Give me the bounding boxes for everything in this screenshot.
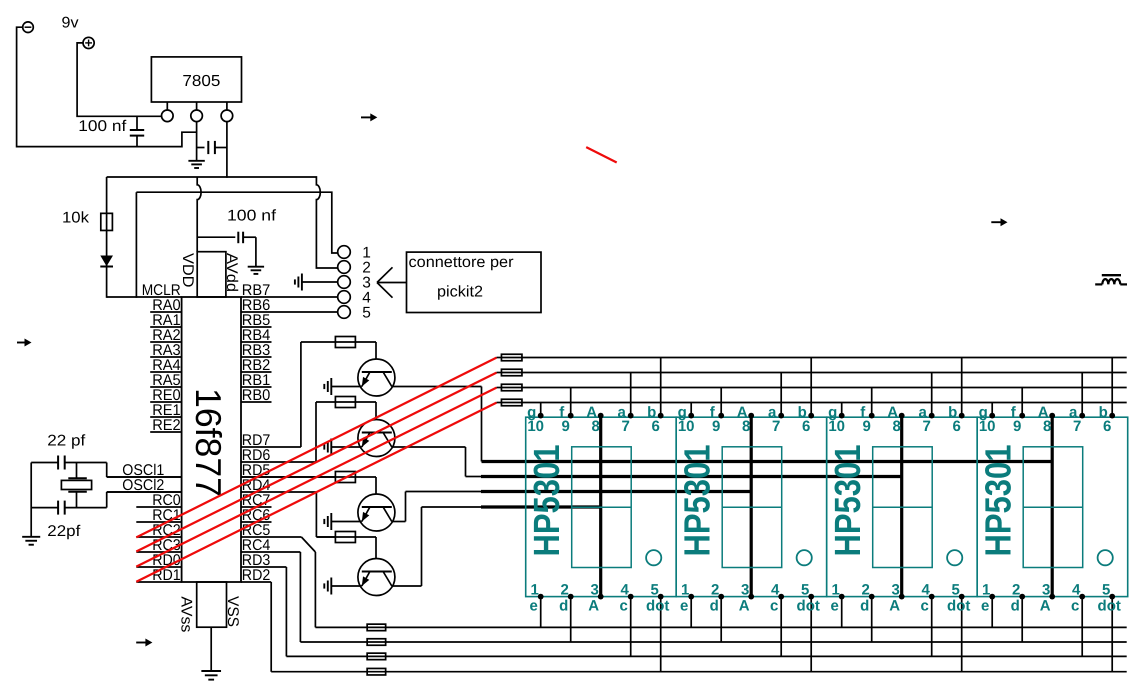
svg-text:8: 8 <box>893 418 901 435</box>
pin RA2 <box>150 341 181 343</box>
display1 bottom pin dot <box>538 594 544 600</box>
ground 7805 <box>188 160 204 162</box>
display1 bottom pin dot <box>568 594 574 600</box>
resistor R2 <box>335 397 355 408</box>
resistor 10k <box>101 213 113 230</box>
svg-text:c: c <box>770 598 778 615</box>
display DS1 digit outline <box>572 447 632 568</box>
wire red segment <box>586 147 617 162</box>
svg-text:9: 9 <box>1013 418 1021 435</box>
arrow marker top <box>361 116 371 118</box>
wire base resistor R4 row <box>316 536 376 538</box>
display3 top pin dot g <box>839 413 845 419</box>
svg-text:VDD: VDD <box>179 253 196 288</box>
svg-text:10: 10 <box>979 418 996 435</box>
resistor R1 <box>335 337 355 348</box>
wire segment bus b <box>522 357 1127 359</box>
wire RD7 to R1 <box>300 342 302 447</box>
wire display1 pin dot to bus <box>660 597 662 672</box>
connector box connettore per pickit2 <box>407 252 542 312</box>
svg-text:8: 8 <box>742 418 750 435</box>
wire display4 pin a to bus <box>1081 373 1083 416</box>
svg-text:4: 4 <box>771 582 780 599</box>
wire display3 pin dot to bus <box>961 597 963 672</box>
display3 top pin dot b <box>959 413 965 419</box>
pickit connector pin 1 circle <box>338 246 351 259</box>
wire to OSC1 <box>106 463 108 478</box>
svg-text:AVdd: AVdd <box>223 253 240 292</box>
display4 bottom pin dot <box>989 594 995 600</box>
wire R4 to Q4 base <box>375 537 377 572</box>
display3 bottom pin dot <box>869 594 875 600</box>
display1 top pin dot f <box>568 413 574 419</box>
svg-text:A: A <box>588 598 599 615</box>
diode D1 <box>100 256 113 267</box>
svg-text:dot: dot <box>797 598 820 615</box>
wire battery minus to ground rail <box>17 27 197 146</box>
svg-text:10: 10 <box>678 418 695 435</box>
svg-text:3: 3 <box>892 582 900 599</box>
svg-text:10k: 10k <box>62 210 89 227</box>
display3 bottom pin dot <box>839 594 845 600</box>
wire RD2 to dot-bus <box>270 582 272 672</box>
ground pickit pin3 <box>301 274 303 291</box>
wire red jumper 3 <box>136 388 496 567</box>
display3 bottom pin dot <box>959 594 965 600</box>
resistor segment R8 <box>497 402 502 404</box>
svg-text:c: c <box>1071 598 1079 615</box>
display4 bottom pin dot <box>1049 594 1055 600</box>
wire RC5 jog to e-bus <box>301 537 315 552</box>
wire Q3 collector to display2 A <box>392 521 406 523</box>
svg-text:pickit2: pickit2 <box>437 284 483 301</box>
svg-text:3: 3 <box>741 582 749 599</box>
svg-text:7: 7 <box>923 418 931 435</box>
display4 bottom pin dot <box>1079 594 1085 600</box>
svg-text:1: 1 <box>832 582 840 599</box>
wire display3 pin c to bus <box>931 597 933 657</box>
svg-text:connettore per: connettore per <box>409 254 514 271</box>
arrow marker right <box>991 221 1001 223</box>
capacitor 100 nf AVdd <box>197 236 235 238</box>
battery positive terminal <box>83 37 94 48</box>
svg-text:5: 5 <box>651 582 659 599</box>
wire display3 pin a to bus <box>931 373 933 416</box>
wire pullup vertical <box>106 177 108 298</box>
display3 top pin dot f <box>869 413 875 419</box>
display2 bottom pin dot <box>718 594 724 600</box>
svg-text:d: d <box>1011 598 1020 615</box>
pin RA0 <box>150 311 181 313</box>
pickit connector pin 2 circle <box>338 261 351 274</box>
wire VDD rail <box>107 177 338 268</box>
wire display2 pin a to bus <box>780 373 782 416</box>
pin RD3 <box>241 566 286 568</box>
svg-text:RD2: RD2 <box>242 567 270 584</box>
display2 bottom pin dot <box>808 594 814 600</box>
resistor R3 <box>335 472 355 483</box>
svg-text:1: 1 <box>681 582 689 599</box>
pin RC4 <box>241 551 300 553</box>
svg-text:100 nf: 100 nf <box>227 208 277 225</box>
resistor segment R7 <box>497 387 502 389</box>
transistor Q1 <box>358 359 395 396</box>
wire display1 pin b to bus <box>660 358 662 416</box>
wire display4 pin dot to bus <box>1111 597 1113 672</box>
display2 bottom pin dot <box>778 594 784 600</box>
svg-text:HP5301: HP5301 <box>978 445 1019 557</box>
wire display1 pin c to bus <box>630 597 632 657</box>
wire display2 pin g to bus <box>690 403 692 416</box>
open arrow to pickit box <box>377 282 407 284</box>
display4 top pin dot g <box>989 413 995 419</box>
wire display3 pin d to bus <box>871 597 873 642</box>
display1 top pin dot A <box>598 413 604 419</box>
svg-text:HP5301: HP5301 <box>827 445 868 557</box>
svg-text:7: 7 <box>772 418 780 435</box>
display2 bottom pin dot <box>748 594 754 600</box>
wire display3 pin f to bus <box>871 388 873 416</box>
wire display3 pin g to bus <box>841 403 843 416</box>
svg-text:c: c <box>921 598 929 615</box>
pin RB7 <box>241 296 338 298</box>
wire RD6 to R2 <box>315 402 317 462</box>
wire segment bus f <box>522 387 1127 389</box>
pickit connector pin 3 circle <box>338 276 351 289</box>
svg-text:dot: dot <box>947 598 970 615</box>
display1 bottom pin dot <box>598 594 604 600</box>
transistor Q2 <box>358 420 395 457</box>
svg-text:7: 7 <box>622 418 630 435</box>
svg-text:22 pf: 22 pf <box>47 433 86 450</box>
svg-text:c: c <box>620 598 628 615</box>
svg-text:d: d <box>559 598 568 615</box>
regulator U2 7805 <box>151 57 241 102</box>
svg-text:9: 9 <box>863 418 871 435</box>
display DS3 digit outline <box>873 447 933 568</box>
ground Q2 emitter <box>330 439 332 456</box>
arrow marker left <box>17 342 26 344</box>
wire display1 pin g to bus <box>540 403 542 416</box>
svg-text:RE2: RE2 <box>152 417 181 434</box>
svg-text:7805: 7805 <box>182 73 220 90</box>
resistor bottom bus dot <box>367 668 386 675</box>
wire Q1 collector to display4 A <box>392 386 482 388</box>
svg-text:2: 2 <box>862 582 870 599</box>
display2 top pin dot A <box>748 413 754 419</box>
ground Q3 emitter <box>330 513 332 530</box>
pin RB0 <box>241 401 272 403</box>
svg-text:4: 4 <box>621 582 630 599</box>
pickit connector pin 4 circle <box>338 291 351 304</box>
display1 top pin dot b <box>658 413 664 419</box>
wire display1 A column <box>599 416 602 597</box>
wire red jumper 1 <box>136 358 496 538</box>
display4 top pin dot a <box>1079 413 1085 419</box>
svg-text:6: 6 <box>652 418 660 435</box>
wire display3 pin b to bus <box>961 358 963 416</box>
resistor segment R5 <box>497 357 502 359</box>
display4 bottom pin dot <box>1109 594 1115 600</box>
display1 top pin dot g <box>538 413 544 419</box>
display3 bottom pin dot <box>899 594 905 600</box>
pin OSCl2 <box>107 491 182 493</box>
svg-text:9v: 9v <box>62 15 79 32</box>
wire battery plus to 7805 input <box>77 43 161 116</box>
ground AVss <box>201 670 221 672</box>
wire display2 pin f to bus <box>720 388 722 416</box>
wire to OSC2 <box>106 492 108 508</box>
crystal X1 <box>76 463 78 479</box>
7805 pin 1 input <box>166 102 168 110</box>
ground Q1 emitter <box>330 378 332 395</box>
display DS1 HP5301 body <box>526 417 677 596</box>
pin RB6 <box>241 311 338 313</box>
wire display2 A column <box>750 416 753 597</box>
pin RD6 <box>241 461 316 463</box>
svg-text:1: 1 <box>982 582 990 599</box>
pin RD7 <box>241 446 301 448</box>
pin RD0 <box>136 566 181 568</box>
7805 pin 2 gnd <box>196 102 198 110</box>
resistor R4 <box>335 532 355 543</box>
svg-text:2: 2 <box>1012 582 1020 599</box>
svg-text:1: 1 <box>531 582 539 599</box>
svg-text:5: 5 <box>801 582 809 599</box>
capacitor output to gnd <box>197 147 205 149</box>
display DS2 digit outline <box>722 447 782 568</box>
wire bottom bus e <box>315 626 1126 628</box>
wire segment bus a <box>522 372 1127 374</box>
pin RD5 <box>241 476 335 478</box>
svg-text:4: 4 <box>1072 582 1081 599</box>
pin RC0 <box>136 506 181 508</box>
pin RD4 <box>241 491 316 493</box>
svg-text:d: d <box>860 598 869 615</box>
svg-text:A: A <box>1040 598 1051 615</box>
wire R2 to Q2 base <box>375 402 377 433</box>
wire display1 pin a to bus <box>630 373 632 416</box>
wire display4 pin b to bus <box>1111 358 1113 416</box>
pin RE1 <box>150 416 181 418</box>
svg-text:e: e <box>831 598 839 615</box>
wire display3 pin e to bus <box>841 597 843 628</box>
svg-text:3: 3 <box>591 582 599 599</box>
svg-text:4: 4 <box>922 582 931 599</box>
chip VDD/AVdd block <box>197 252 226 297</box>
display2 top pin dot b <box>808 413 814 419</box>
display3 top pin dot a <box>929 413 935 419</box>
svg-text:HP5301: HP5301 <box>677 445 718 557</box>
wire bottom bus c <box>286 655 1126 657</box>
display1 bottom pin dot <box>628 594 634 600</box>
display2 top pin dot a <box>778 413 784 419</box>
wire R3 to Q3 base <box>375 477 377 507</box>
svg-text:HP5301: HP5301 <box>526 445 567 557</box>
display2 bottom pin dot <box>688 594 694 600</box>
display DS1 decimal point <box>646 550 661 565</box>
svg-text:100 nf: 100 nf <box>78 118 127 135</box>
svg-text:2: 2 <box>711 582 719 599</box>
pin RB2 <box>241 371 272 373</box>
display2 top pin dot f <box>718 413 724 419</box>
svg-text:A: A <box>889 598 900 615</box>
display DS2 decimal point <box>797 550 812 565</box>
display3 top pin dot A <box>899 413 905 419</box>
wire VSS to ground <box>210 627 212 671</box>
svg-text:22pf: 22pf <box>47 523 81 540</box>
svg-text:e: e <box>530 598 538 615</box>
svg-text:VSS: VSS <box>224 596 241 627</box>
wire RD3 to c-bus <box>285 567 287 656</box>
wire bottom bus d <box>300 641 1126 643</box>
pin RA1 <box>150 326 181 328</box>
transistor Q3 <box>358 494 395 531</box>
wire base resistor R3 row <box>241 476 376 478</box>
svg-text:6: 6 <box>1103 418 1111 435</box>
display4 bottom pin dot <box>1019 594 1025 600</box>
wire RD4 to R4 <box>315 492 317 537</box>
display DS4 digit outline <box>1023 447 1082 568</box>
svg-text:9: 9 <box>562 418 570 435</box>
display4 top pin dot b <box>1109 413 1115 419</box>
pin RC1 <box>136 521 181 523</box>
display4 top pin dot A <box>1049 413 1055 419</box>
svg-text:16f877: 16f877 <box>188 388 229 497</box>
svg-text:8: 8 <box>1043 418 1051 435</box>
wire display4 A column <box>1051 416 1054 597</box>
svg-text:RD1: RD1 <box>152 567 181 584</box>
wire display4 pin c to bus <box>1081 597 1083 657</box>
pin RB5 <box>241 326 272 328</box>
display DS3 HP5301 body <box>827 417 978 596</box>
svg-text:5: 5 <box>362 304 371 321</box>
wire Q4 collector to display1 A <box>392 585 422 587</box>
wire display2 pin b to bus <box>810 358 812 416</box>
resistor segment R6 <box>497 372 502 374</box>
chip AVss/VSS block <box>197 582 227 627</box>
wire base resistor R2 row <box>316 401 376 403</box>
wire RC4 to d-bus <box>299 552 301 642</box>
pin RA3 <box>150 356 181 358</box>
wire crystal left <box>30 463 32 537</box>
wire red jumper 4 <box>136 403 496 582</box>
wire display1 pin e to bus <box>540 597 542 628</box>
ground crystal <box>22 536 40 538</box>
wire VDD branch rail <box>136 192 337 253</box>
svg-text:6: 6 <box>953 418 961 435</box>
pin RA5 <box>150 386 181 388</box>
capacitor 22pf top <box>31 462 58 464</box>
wire base resistor R1 row <box>301 341 376 343</box>
capacitor 22pf bottom <box>31 507 58 509</box>
svg-text:A: A <box>739 598 750 615</box>
wire VDD to chip <box>197 177 201 252</box>
pin RD2 <box>241 581 271 583</box>
pin OSCl1 <box>107 476 182 478</box>
wire VDD branch drop to MCLR <box>135 192 137 298</box>
pin RE2 <box>150 431 181 433</box>
wire display4 pin f to bus <box>1021 388 1023 416</box>
display3 bottom pin dot <box>929 594 935 600</box>
wire display3 A column <box>900 416 903 597</box>
inductor symbol <box>1095 283 1102 285</box>
svg-text:7: 7 <box>1073 418 1081 435</box>
display DS4 decimal point <box>1098 550 1113 565</box>
svg-text:dot: dot <box>1098 598 1121 615</box>
display2 top pin dot g <box>688 413 694 419</box>
7805 pin 3 output <box>226 102 228 110</box>
wire display4 pin g to bus <box>991 403 993 416</box>
display1 bottom pin dot <box>658 594 664 600</box>
pin RD1 <box>136 581 181 583</box>
pin RB3 <box>241 356 272 358</box>
pin RB4 <box>241 341 272 343</box>
capacitor 100 nf input <box>136 116 138 130</box>
wire display1 pin d to bus <box>570 597 572 642</box>
svg-text:2: 2 <box>561 582 569 599</box>
pin RC3 <box>136 551 181 553</box>
wire Q2 collector to display3 A <box>392 446 466 448</box>
svg-text:3: 3 <box>1042 582 1050 599</box>
chip U1 16f877 body <box>182 297 241 582</box>
svg-text:8: 8 <box>592 418 600 435</box>
svg-text:RB0: RB0 <box>242 387 271 404</box>
display DS2 HP5301 body <box>676 417 827 596</box>
ground Q4 emitter <box>330 578 332 595</box>
svg-text:e: e <box>680 598 688 615</box>
pin RA4 <box>150 371 181 373</box>
svg-text:6: 6 <box>802 418 810 435</box>
svg-text:10: 10 <box>527 418 544 435</box>
battery negative terminal <box>23 22 34 33</box>
svg-text:e: e <box>981 598 989 615</box>
display4 top pin dot f <box>1019 413 1025 419</box>
transistor Q4 <box>358 559 395 596</box>
wire display2 pin d to bus <box>720 597 722 642</box>
wire MCLR <box>107 296 182 298</box>
display DS3 decimal point <box>947 550 962 565</box>
ground AVdd cap <box>248 266 264 268</box>
wire display2 pin c to bus <box>780 597 782 657</box>
wire 7805 gnd down <box>196 121 198 160</box>
pin RE0 <box>150 401 181 403</box>
pin RC5 <box>241 536 301 538</box>
svg-text:9: 9 <box>712 418 720 435</box>
svg-text:dot: dot <box>646 598 669 615</box>
wire 7805 output down to VDD rail <box>226 121 228 177</box>
wire red jumper 2 <box>136 373 496 552</box>
resistor bottom bus d <box>367 639 386 646</box>
pin RB1 <box>241 386 272 388</box>
resistor bottom bus e <box>367 624 386 631</box>
pin RC7 <box>241 506 272 508</box>
wire display2 pin dot to bus <box>810 597 812 672</box>
wire display4 pin d to bus <box>1021 597 1023 642</box>
display1 top pin dot a <box>628 413 634 419</box>
svg-text:5: 5 <box>952 582 960 599</box>
svg-text:10: 10 <box>828 418 845 435</box>
svg-text:5: 5 <box>1102 582 1110 599</box>
display DS4 HP5301 body <box>977 417 1127 596</box>
svg-text:d: d <box>710 598 719 615</box>
resistor bottom bus c <box>367 653 386 660</box>
svg-text:AVss: AVss <box>178 596 195 632</box>
wire display1 pin f to bus <box>570 388 572 416</box>
pin RC2 <box>136 536 181 538</box>
pin RC6 <box>241 521 272 523</box>
wire display4 pin e to bus <box>991 597 993 628</box>
